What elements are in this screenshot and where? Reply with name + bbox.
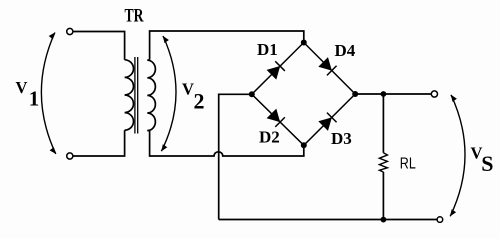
svg-text:D1: D1 [257, 40, 278, 59]
svg-text:V: V [16, 78, 28, 97]
svg-text:2: 2 [194, 89, 205, 114]
svg-text:TR: TR [125, 6, 144, 27]
svg-text:V: V [182, 80, 194, 99]
svg-text:RL: RL [400, 156, 416, 173]
svg-text:D3: D3 [331, 129, 352, 148]
svg-text:1: 1 [29, 87, 40, 111]
svg-text:S: S [481, 151, 493, 176]
svg-text:D4: D4 [335, 41, 356, 60]
svg-text:D2: D2 [259, 128, 280, 147]
